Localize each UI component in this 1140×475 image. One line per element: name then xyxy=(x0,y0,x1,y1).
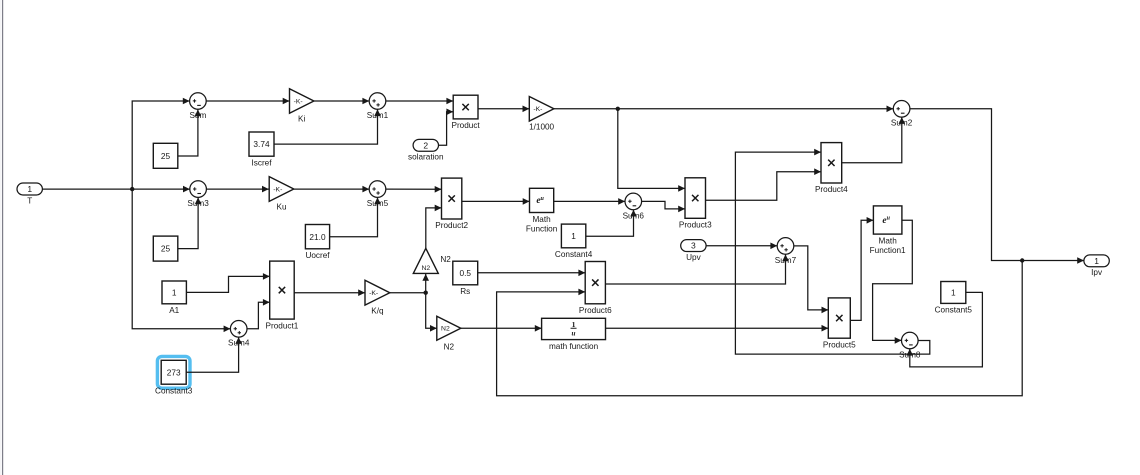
svg-text:-K-: -K- xyxy=(369,290,378,297)
product Product5 xyxy=(823,298,856,350)
svg-text:Uocref: Uocref xyxy=(305,251,330,260)
svg-text:K/q: K/q xyxy=(371,306,384,315)
wire 25 to Sum bottom xyxy=(178,110,201,157)
window left edge strip xyxy=(0,0,2,475)
svg-text:1: 1 xyxy=(1094,256,1099,266)
constant Constant5 1 xyxy=(935,282,973,315)
svg-text:273: 273 xyxy=(167,367,181,377)
svg-text:1/1000: 1/1000 xyxy=(529,122,554,131)
svg-text:N2: N2 xyxy=(444,343,455,352)
constant 25 (2) xyxy=(153,236,178,261)
svg-text:A1: A1 xyxy=(169,306,179,315)
svg-text:Product1: Product1 xyxy=(266,321,299,330)
svg-text:Rs: Rs xyxy=(460,287,470,296)
gain K/q xyxy=(365,280,390,315)
wire Sum8 feedback to Product4 in1 xyxy=(735,149,929,354)
wire junction up to N2 xyxy=(422,274,429,293)
svg-text:1: 1 xyxy=(951,288,956,298)
svg-text:Ipv: Ipv xyxy=(1091,268,1103,277)
product Product xyxy=(451,95,480,130)
math function 1/u xyxy=(542,318,606,351)
svg-text:-K-: -K- xyxy=(533,106,542,113)
wire A1 to Product1 in1 xyxy=(186,273,269,292)
wire Product6 to Sum7 bottom xyxy=(605,254,788,284)
product Product4 xyxy=(815,143,848,195)
sum Sum3 xyxy=(187,181,209,208)
wire Sum3 to Ku xyxy=(206,186,268,193)
svg-text:Upv: Upv xyxy=(686,253,701,262)
svg-text:Sum3: Sum3 xyxy=(187,199,209,208)
wire Product to 1/1000 xyxy=(478,106,529,113)
wire math function to Product5 in2 xyxy=(606,325,829,332)
svg-text:25: 25 xyxy=(161,244,171,254)
wire Product3 to Product4 in2 xyxy=(706,168,822,200)
wire Math Function to Sum6 xyxy=(554,198,625,205)
svg-text:Function: Function xyxy=(526,224,558,233)
svg-text:Iscref: Iscref xyxy=(251,159,272,168)
svg-text:-K-: -K- xyxy=(294,98,303,105)
wire K/q to junction xyxy=(390,292,426,294)
wire Upv to Sum7 xyxy=(706,243,778,250)
svg-text:3.74: 3.74 xyxy=(253,139,270,149)
wire trunk junction to Sum3 xyxy=(132,186,190,193)
sum Sum xyxy=(189,93,206,120)
wire Sum4 to Product1 in2 xyxy=(247,299,270,329)
svg-text:Sum7: Sum7 xyxy=(775,256,797,265)
svg-text:Math: Math xyxy=(532,215,551,224)
node output junction xyxy=(1020,258,1024,262)
wire Rs to Product6 in1 xyxy=(478,270,586,277)
constant Rs 0.5 xyxy=(453,261,478,296)
node trunk junction xyxy=(130,187,134,191)
sum Sum7 xyxy=(775,238,797,265)
svg-text:1: 1 xyxy=(27,184,32,194)
wire Constant5 to Sum8 bottom xyxy=(907,292,983,367)
svg-text:Math: Math xyxy=(879,237,898,246)
output port 1 Ipv xyxy=(1084,255,1109,277)
svg-text:Sum8: Sum8 xyxy=(899,350,921,359)
wire 25(2) to Sum3 bottom xyxy=(178,197,202,248)
svg-text:math function: math function xyxy=(549,342,599,351)
svg-text:2: 2 xyxy=(423,140,428,150)
svg-text:Sum: Sum xyxy=(189,111,206,120)
wire Sum6 to Product3 in2 xyxy=(642,201,685,212)
svg-text:N2: N2 xyxy=(421,265,430,272)
wire junction to Product3 in1 xyxy=(618,109,685,192)
wire N2 up to Product2 in2 xyxy=(426,205,442,249)
product Product3 xyxy=(679,178,712,230)
input port 1 T xyxy=(17,183,42,205)
sum Sum1 xyxy=(367,93,389,120)
svg-text:Constant3: Constant3 xyxy=(155,387,193,396)
svg-text:N2: N2 xyxy=(441,326,450,333)
wire junction down to N2(2) xyxy=(426,293,437,332)
wire Sum5 to Product2 xyxy=(386,186,442,193)
svg-text:Sum2: Sum2 xyxy=(891,119,913,128)
svg-text:3: 3 xyxy=(691,241,696,251)
svg-text:25: 25 xyxy=(161,151,171,161)
svg-text:Ki: Ki xyxy=(298,115,305,124)
wire Sum2 to Ipv xyxy=(910,109,1084,264)
svg-text:solaration: solaration xyxy=(408,153,444,162)
product Product2 xyxy=(435,178,468,230)
constant Constant3 273 xyxy=(155,360,193,395)
wire Sum7 to Product5 in1 xyxy=(794,246,829,313)
wire Product4 to Sum2 bottom xyxy=(842,117,905,163)
svg-text:Product3: Product3 xyxy=(679,221,712,230)
wire Constant4 to Sum6 bottom xyxy=(586,210,637,237)
svg-text:Ku: Ku xyxy=(276,203,286,212)
svg-text:1: 1 xyxy=(571,231,576,241)
gain N2 right xyxy=(437,316,461,351)
constant 25 xyxy=(153,143,178,168)
product Product1 xyxy=(266,261,299,330)
svg-text:Product5: Product5 xyxy=(823,340,856,349)
svg-text:Function1: Function1 xyxy=(870,246,906,255)
svg-text:1: 1 xyxy=(172,288,177,298)
svg-text:1: 1 xyxy=(572,320,576,329)
wire Ku to Sum5 xyxy=(294,186,369,193)
wire Uocref to Sum5 bottom xyxy=(330,197,381,236)
wire trunk up to Sum xyxy=(132,98,189,189)
svg-text:Sum1: Sum1 xyxy=(367,111,389,120)
svg-text:T: T xyxy=(27,196,32,205)
constant A1 1 xyxy=(162,281,186,315)
gain N2 up xyxy=(413,248,451,273)
svg-text:N2: N2 xyxy=(440,255,451,264)
wire Product2 to Math Function xyxy=(462,198,530,205)
svg-text:21.0: 21.0 xyxy=(309,232,326,242)
input port 2 solaration xyxy=(408,139,444,161)
svg-text:-K-: -K- xyxy=(273,186,282,193)
svg-text:Sum6: Sum6 xyxy=(623,211,645,220)
svg-text:Product6: Product6 xyxy=(579,306,612,315)
svg-text:Product4: Product4 xyxy=(815,185,848,194)
sum Sum5 xyxy=(367,181,389,208)
wire Ki to Sum1 xyxy=(314,98,369,105)
sum Sum8 xyxy=(899,332,921,359)
svg-text:Constant5: Constant5 xyxy=(935,306,973,315)
node 1/1000 line junction xyxy=(616,107,620,111)
wire Product1 to K/q xyxy=(294,289,365,296)
gain Ku xyxy=(269,177,294,212)
node K/q junction xyxy=(424,291,428,295)
sum Sum2 xyxy=(891,101,913,128)
svg-text:Sum5: Sum5 xyxy=(367,199,389,208)
product Product6 xyxy=(579,262,612,316)
wire output feedback to Product6 in2 xyxy=(497,261,1023,396)
sum Sum4 xyxy=(228,321,250,348)
math function e^u Math Function1 xyxy=(870,206,906,255)
svg-text:Product: Product xyxy=(451,121,480,130)
wire 1/1000 to Sum2 xyxy=(554,106,893,113)
wire Math Function1 to Sum8 xyxy=(873,220,913,343)
gain Ki xyxy=(290,89,314,124)
wire Sum1 to Product xyxy=(386,98,453,105)
wire Constant3 to Sum4 bottom xyxy=(186,337,242,372)
svg-text:u: u xyxy=(572,329,576,337)
wire trunk down to Sum4 xyxy=(132,189,230,332)
selection highlight Constant3 xyxy=(157,356,190,388)
wire Iscref to Sum1 bottom xyxy=(274,109,381,144)
wire Sum to Ki xyxy=(206,98,289,105)
window left edge line xyxy=(2,0,3,475)
gain 1/1000 xyxy=(529,97,554,132)
svg-text:Constant4: Constant4 xyxy=(555,250,593,259)
constant Constant4 1 xyxy=(555,224,593,259)
wire solaration to Product xyxy=(439,109,454,146)
svg-text:Product2: Product2 xyxy=(435,221,468,230)
svg-text:0.5: 0.5 xyxy=(459,268,471,278)
constant Iscref 3.74 xyxy=(249,132,274,168)
wire N2(2) to math function xyxy=(461,325,542,332)
wire T to trunk junction xyxy=(42,188,132,190)
wire Product5 to Math Function1 xyxy=(850,217,873,320)
input port 3 Upv xyxy=(681,240,706,262)
constant Uocref 21.0 xyxy=(305,225,330,261)
math function e^u Math Function xyxy=(526,188,558,233)
sum Sum6 xyxy=(623,193,645,220)
